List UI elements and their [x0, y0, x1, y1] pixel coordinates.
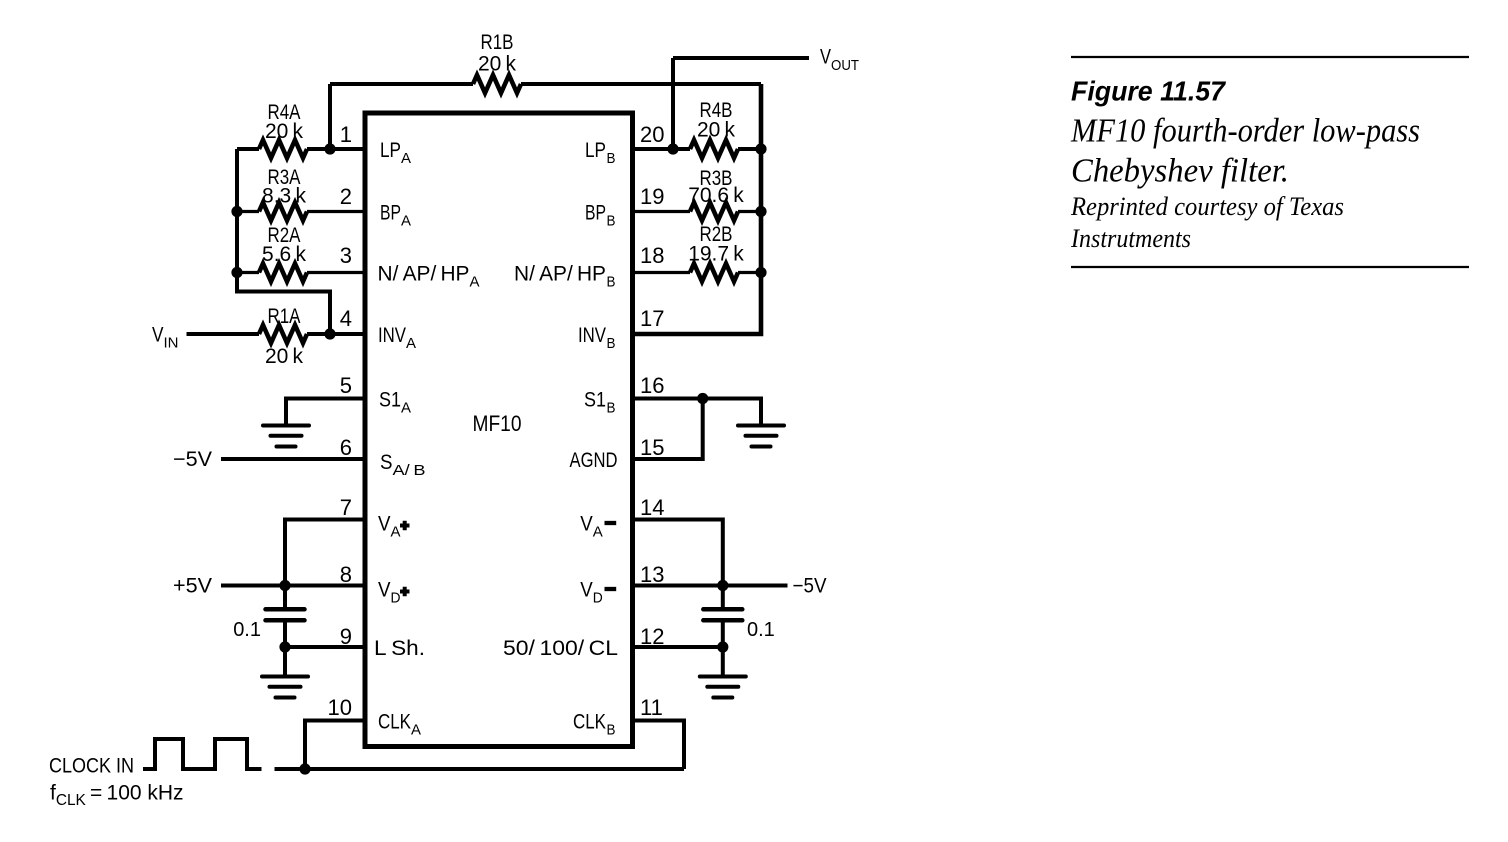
capacitor C2 0.1uF	[703, 609, 742, 620]
svg-text:2: 2	[340, 184, 352, 209]
svg-text:19: 19	[640, 184, 664, 209]
svg-text:20 k: 20 k	[478, 53, 517, 76]
svg-text:+5V: +5V	[173, 575, 212, 598]
svg-text:INV: INV	[578, 324, 606, 347]
resistor R2A row wire	[237, 271, 365, 274]
svg-text:18: 18	[640, 243, 664, 268]
resistor R1A	[259, 325, 307, 343]
wire cap to pin12 junction	[721, 622, 725, 647]
wire pin 12 50/100/CL	[633, 645, 723, 649]
wire R1B rail left segment	[330, 82, 473, 86]
wire VOUT vertical from pin 20	[671, 58, 675, 149]
svg-text:5: 5	[340, 373, 352, 398]
svg-text:14: 14	[640, 495, 664, 520]
resistor R1B	[473, 75, 521, 93]
svg-text:50/ 100/ CL: 50/ 100/ CL	[503, 637, 618, 660]
svg-text:MF10: MF10	[473, 411, 522, 436]
wire pin1 junction up to R1B feedback rail	[328, 84, 332, 149]
svg-text:16: 16	[640, 373, 664, 398]
minus sign VA-	[605, 521, 617, 525]
wire AGND elbow pin 15	[633, 399, 703, 460]
wire pin 16 S1B to ground	[633, 399, 762, 425]
svg-text:B: B	[607, 213, 616, 230]
svg-text:Instrutments: Instrutments	[1070, 224, 1191, 253]
svg-text:20 k: 20 k	[265, 120, 304, 143]
wire clock bottom rail	[275, 767, 685, 771]
svg-text:S1: S1	[584, 389, 606, 412]
wire pin 8 VD+ from +5V	[221, 584, 365, 588]
clock waveform	[143, 739, 262, 769]
svg-text:20 k: 20 k	[265, 345, 304, 368]
wire VOUT horizontal	[673, 56, 809, 60]
svg-text:19.7 k: 19.7 k	[688, 243, 744, 266]
svg-text:8: 8	[340, 562, 352, 587]
wire pin13 junction down to cap	[721, 586, 725, 608]
svg-text:0.1: 0.1	[233, 619, 261, 641]
resistor R3A	[259, 203, 307, 221]
wire pin 9 L Sh.	[285, 645, 365, 649]
svg-text:6: 6	[340, 435, 352, 460]
svg-text:AGND: AGND	[570, 449, 618, 472]
wire pin 10 CLKA elbow down	[305, 721, 365, 770]
svg-text:−5V: −5V	[173, 448, 212, 471]
svg-text:CLK: CLK	[573, 711, 606, 734]
wire VIN to R1A	[187, 332, 260, 336]
resistor R4B row wire	[633, 147, 762, 151]
wire pin 5 S1A to ground	[286, 399, 365, 425]
svg-text:B: B	[607, 335, 616, 352]
svg-text:1: 1	[340, 122, 352, 147]
svg-text:MF10 fourth-order low-pass: MF10 fourth-order low-pass	[1070, 113, 1420, 150]
svg-text:20 k: 20 k	[697, 119, 736, 142]
resistor R3A row wire	[237, 210, 365, 213]
svg-text:BP: BP	[585, 202, 606, 225]
junction dots left bank	[324, 143, 335, 154]
wire pin 11 CLKB elbow down	[633, 721, 685, 770]
wire R1B rail right segment	[521, 82, 761, 86]
caption bottom rule	[1071, 266, 1469, 268]
svg-text:8.3 k: 8.3 k	[262, 185, 306, 208]
svg-text:3: 3	[340, 243, 352, 268]
wire R1A to pin 4	[307, 332, 365, 336]
op-amp U1 MF10 IC body	[365, 113, 633, 747]
resistor R3B row wire	[633, 210, 762, 213]
svg-text:5.6 k: 5.6 k	[262, 243, 306, 266]
svg-text:17: 17	[640, 306, 664, 331]
svg-text:R1B: R1B	[481, 31, 514, 54]
wire pin 6 -5V	[221, 457, 365, 461]
svg-text:13: 13	[640, 562, 664, 587]
wire pin9 junction to ground	[283, 647, 287, 675]
svg-text:70.6 k: 70.6 k	[688, 184, 744, 207]
junction dots right bank	[667, 143, 678, 154]
resistor R2A	[259, 264, 307, 282]
wire pin12 junction to ground	[721, 647, 725, 675]
svg-text:−5V: −5V	[793, 575, 827, 598]
svg-text:LP: LP	[585, 139, 606, 162]
svg-text:7: 7	[340, 495, 352, 520]
svg-text:Figure 11.57: Figure 11.57	[1071, 76, 1226, 107]
svg-text:Reprinted courtesy of Texas: Reprinted courtesy of Texas	[1070, 192, 1344, 221]
svg-text:10: 10	[328, 695, 352, 720]
wire pin8 junction down to cap	[283, 586, 287, 608]
svg-text:11: 11	[640, 695, 663, 720]
svg-text:15: 15	[640, 435, 664, 460]
svg-text:4: 4	[340, 306, 352, 331]
resistor R2B row wire	[633, 271, 762, 274]
plus sign VA+	[400, 521, 410, 531]
resistor R4A row wire	[237, 147, 365, 151]
minus sign VD-	[605, 587, 617, 591]
svg-text:N/ AP/ HP: N/ AP/ HP	[514, 263, 606, 286]
caption top rule	[1071, 56, 1469, 58]
ground G1	[263, 426, 309, 447]
svg-text:20: 20	[640, 122, 664, 147]
svg-text:9: 9	[340, 624, 352, 649]
svg-text:CLOCK IN: CLOCK IN	[49, 755, 134, 778]
svg-text:12: 12	[640, 624, 664, 649]
svg-text:B: B	[607, 722, 616, 739]
resistor R3B	[690, 203, 738, 221]
ground G3	[738, 426, 784, 447]
plus sign VD+	[400, 587, 410, 597]
capacitor C1 0.1uF	[266, 609, 305, 620]
svg-text:B: B	[607, 150, 616, 167]
wire pin 7 VA+ elbow	[285, 520, 365, 586]
wire cap to pin9 junction	[283, 622, 287, 647]
svg-text:R1A: R1A	[268, 305, 301, 328]
svg-text:L Sh.: L Sh.	[374, 637, 425, 660]
svg-text:B: B	[607, 400, 616, 417]
resistor R2B	[690, 264, 738, 282]
svg-text:Chebyshev filter.: Chebyshev filter.	[1071, 153, 1289, 190]
ground G2	[262, 677, 308, 698]
wire right bus vertical	[633, 84, 762, 334]
ground G4	[700, 677, 746, 698]
wire left bus vertical	[237, 149, 330, 334]
wire pin 13 VD- to -5V	[633, 584, 788, 588]
svg-text:0.1: 0.1	[747, 619, 775, 641]
wire pin 14 VA- elbow	[633, 520, 723, 586]
svg-text:B: B	[607, 274, 616, 291]
resistor R4B	[690, 140, 738, 158]
resistor R4A	[259, 140, 307, 158]
